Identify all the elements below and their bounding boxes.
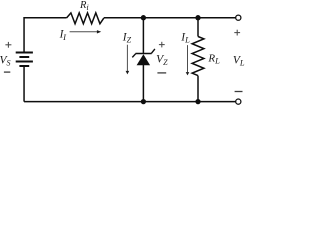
zener diode VZ [132, 49, 155, 65]
label VS [0, 55, 11, 68]
label IL current [180, 31, 190, 44]
terminal top right [236, 15, 241, 20]
wire top rail [24, 17, 236, 19]
node junction top RL [195, 15, 200, 20]
arrow IL [186, 45, 190, 75]
label VL plus [234, 30, 240, 36]
arrow IZ [126, 45, 130, 75]
wire bottom rail [24, 101, 236, 103]
label VZ minus [157, 72, 166, 74]
resistor Ri [67, 13, 104, 24]
node junction bottom RL [195, 99, 200, 104]
label VZ [156, 53, 168, 67]
battery source VS [16, 53, 33, 67]
label VL minus [235, 91, 243, 93]
arrow II [70, 30, 102, 33]
label RL [207, 52, 220, 65]
label VZ plus [159, 42, 165, 48]
wire RL branch [197, 18, 199, 102]
terminal bottom right [236, 99, 241, 104]
svg-text:VL: VL [233, 55, 245, 68]
wire left branch [23, 17, 25, 102]
label IZ current [122, 32, 132, 45]
node junction bottom zener [141, 99, 146, 104]
node junction top zener [141, 15, 146, 20]
wire zener branch [142, 18, 144, 102]
label VL [233, 55, 245, 68]
label VS plus [5, 42, 11, 48]
label Ri [79, 0, 89, 12]
svg-text:Ri: Ri [79, 0, 89, 12]
label VS minus [4, 71, 10, 73]
label II current [59, 29, 68, 42]
resistor RL [192, 37, 204, 76]
